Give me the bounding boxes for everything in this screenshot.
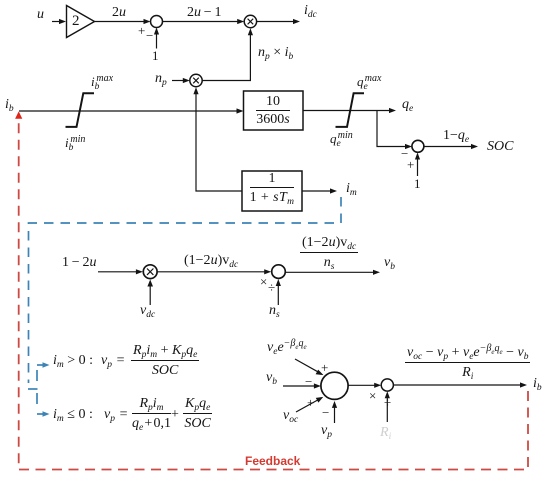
label i_m xyxy=(346,182,357,196)
block text 1/(1+sTm) xyxy=(242,172,302,205)
fraction label (voc-vp+ve...)/Ri xyxy=(405,346,530,380)
summer S1 xyxy=(151,16,163,28)
label u xyxy=(37,8,44,22)
wire tap down to Tm block xyxy=(196,111,242,191)
red arrowhead into i_b line xyxy=(15,111,22,118)
label i_b input xyxy=(5,98,14,112)
fraction label (1-2u)v_dc/n_s xyxy=(300,236,358,270)
label n_p xyxy=(155,72,167,86)
label 2u-1 xyxy=(187,6,222,20)
blue eq2 condition xyxy=(53,408,93,422)
wire i_m output xyxy=(302,188,337,193)
block text 10/3600s xyxy=(243,95,303,128)
label i_dc xyxy=(304,4,317,18)
saturation block q_e xyxy=(336,93,365,127)
wire v_b into S3 xyxy=(283,383,321,388)
block 1/(1+sTm) xyxy=(242,171,302,211)
sign - vp input xyxy=(322,406,329,419)
wire S3 to divider D2 xyxy=(348,383,381,388)
eq2 fraction 1 xyxy=(132,397,171,431)
label i_b output xyxy=(533,377,542,391)
faint label R_i xyxy=(380,426,391,440)
sign divide at D2 xyxy=(384,396,391,409)
wire v_b output xyxy=(285,270,380,275)
eq1 fraction xyxy=(131,344,199,378)
wire 2u-1 xyxy=(163,19,245,24)
label i_b max xyxy=(91,75,113,88)
blue eq1 condition xyxy=(53,354,93,368)
blue dashed arrow to eq1 xyxy=(37,362,50,367)
label v_oc xyxy=(283,409,298,423)
multiplier M2 xyxy=(190,74,202,86)
wire n_s into D1 xyxy=(276,279,281,305)
wire u to gain xyxy=(52,19,66,24)
divider D2 xyxy=(381,379,393,391)
label SOC xyxy=(487,140,513,154)
sign + ve input xyxy=(321,361,328,374)
eq1 v_p equals xyxy=(101,354,125,368)
label Feedback xyxy=(245,454,300,468)
label v_p into S3 xyxy=(321,424,332,438)
wire tap up into M2 xyxy=(193,87,198,111)
wire i_dc output xyxy=(257,19,300,24)
wire 2u xyxy=(95,19,151,24)
blue dashed i_m feedback xyxy=(29,197,342,383)
block 10/3600s xyxy=(244,91,304,130)
sign + at S2 xyxy=(407,158,414,171)
eq2 plus sign xyxy=(171,408,179,422)
sign x at D1 xyxy=(260,275,267,288)
wire M2 output up to M1 xyxy=(202,28,253,80)
label 1 into S1 xyxy=(152,49,159,62)
wire v_e exp into S3 xyxy=(295,359,324,375)
sign + at S1 xyxy=(138,24,145,37)
wire v_p into S3 xyxy=(332,401,337,423)
label v_b into S3 xyxy=(266,371,277,385)
label q_e min xyxy=(330,132,353,145)
label n_p x i_b xyxy=(258,46,293,60)
wire v_dc into M3 xyxy=(147,280,153,306)
wire constant 1 into S2 xyxy=(415,153,420,177)
divider D1 xyxy=(272,265,286,279)
wire i_b feedback output xyxy=(393,382,527,387)
wire v_oc into S3 xyxy=(296,397,323,412)
multiplier M3 xyxy=(143,265,157,279)
wire constant 1 into S1 xyxy=(154,28,159,49)
label q_e xyxy=(402,98,413,112)
eq2 v_p equals xyxy=(104,408,128,422)
sign - vb input xyxy=(305,375,312,388)
summer S2 xyxy=(412,140,424,152)
label n_s xyxy=(269,304,280,318)
wire SOC output xyxy=(423,144,478,149)
label q_e max xyxy=(357,75,381,88)
blue dashed arrow to eq2 xyxy=(37,411,50,416)
wire branch down to summer S2 xyxy=(377,111,412,150)
label v_dc xyxy=(140,304,155,318)
label 1 into S2 xyxy=(414,177,421,190)
sign x at D2 xyxy=(369,389,376,402)
blue dashed elbow xyxy=(28,388,38,390)
wire n_p into M2 xyxy=(172,78,190,83)
multiplier M1 xyxy=(244,15,256,27)
label 2 in gain xyxy=(72,14,80,29)
sign - at S2 xyxy=(401,147,408,160)
label 2u xyxy=(112,6,126,20)
wire block to q_e arrow xyxy=(303,108,396,113)
label (1-2u)v_dc wire xyxy=(184,254,238,268)
wire M3 to divider D1 xyxy=(157,269,271,274)
eq2 fraction 2 xyxy=(183,397,212,431)
saturation block i_b xyxy=(66,93,95,127)
sign divide at D1 xyxy=(268,281,275,294)
red dashed feedback loop right/bottom/left xyxy=(19,119,528,470)
gain block "2" (triangle) xyxy=(67,6,95,38)
label v_b row2 xyxy=(384,256,395,270)
label 1-2u xyxy=(62,256,97,270)
sign + voc input xyxy=(307,396,314,409)
label i_b min xyxy=(65,136,85,149)
sign - at S1 xyxy=(146,29,153,42)
wire R_i into D2 xyxy=(385,391,390,422)
label 1-q_e xyxy=(443,129,469,143)
label v_e exp xyxy=(267,341,307,355)
blue dashed branch vertical xyxy=(36,365,38,414)
summer S3 (large) xyxy=(321,372,348,399)
wire 1-2u into M3 xyxy=(98,269,143,274)
wire i_b main line xyxy=(19,108,244,113)
